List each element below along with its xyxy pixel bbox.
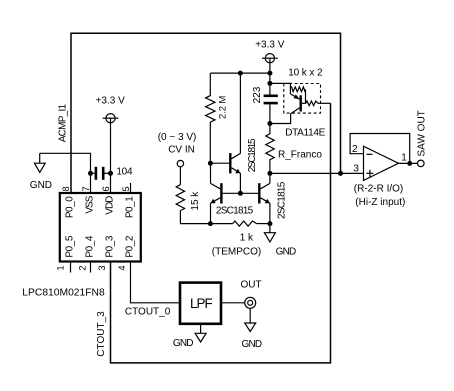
svg-text:P0_4: P0_4 xyxy=(85,235,96,257)
svg-text:3: 3 xyxy=(353,164,359,175)
power +3.3V right xyxy=(255,40,285,74)
svg-text:(Hi-Z input): (Hi-Z input) xyxy=(355,197,405,208)
svg-text:VSS: VSS xyxy=(85,195,96,213)
svg-text:(R-2-R I/O): (R-2-R I/O) xyxy=(354,184,403,195)
node junction top rail power xyxy=(267,71,272,76)
svg-text:GND: GND xyxy=(173,338,193,349)
wire CTOUT_3 net pin3 bottom loop xyxy=(111,103,331,363)
wire 15k to bottom rail xyxy=(180,211,210,224)
node junction cap top / DTA input xyxy=(267,81,272,86)
ground GND under OUT xyxy=(242,308,262,350)
node junction Q2 emitter rail xyxy=(208,221,213,226)
svg-text:CTOUT_3: CTOUT_3 xyxy=(96,311,107,357)
wire DTA collector to cap bottom xyxy=(270,114,291,124)
wire top frame ACMP_I1 net xyxy=(71,33,341,193)
node junction saw to ACMP frame xyxy=(338,171,343,176)
wire VDD xyxy=(110,118,112,193)
svg-text:LPF: LPF xyxy=(190,296,213,311)
svg-text:1 k: 1 k xyxy=(240,232,254,243)
resistor R 15k xyxy=(176,167,201,211)
svg-text:223: 223 xyxy=(252,86,263,103)
svg-text:SAW OUT: SAW OUT xyxy=(417,110,428,156)
svg-text:GND: GND xyxy=(30,180,52,191)
svg-text:(0 ~ 3 V): (0 ~ 3 V) xyxy=(158,132,197,143)
resistor R 1k TEMPCO xyxy=(212,221,270,257)
svg-text:P0_2: P0_2 xyxy=(125,235,136,257)
wire power node to cap/DTA xyxy=(269,73,271,95)
svg-text:(TEMPCO): (TEMPCO) xyxy=(212,246,261,257)
transistor Q1 2SC1815 top xyxy=(210,73,258,193)
svg-text:6: 6 xyxy=(101,186,111,191)
wire to DTA114E emitter xyxy=(270,83,291,94)
svg-text:GND: GND xyxy=(242,339,262,350)
ground GND under LPF xyxy=(173,324,206,349)
svg-text:2SC1815: 2SC1815 xyxy=(216,205,254,216)
svg-text:VDD: VDD xyxy=(105,196,116,215)
svg-text:1: 1 xyxy=(401,153,407,164)
node junction Q1 base / 2.2M / Q2 collector xyxy=(208,161,213,166)
wire bottom rail 1k xyxy=(210,223,232,225)
terminal SAW OUT xyxy=(417,110,428,166)
transistor Q4 DTA114E digital PNP xyxy=(284,68,326,139)
block LPF xyxy=(180,283,221,324)
svg-text:R_Franco: R_Franco xyxy=(278,150,322,161)
svg-text:2: 2 xyxy=(77,265,87,270)
svg-text:7: 7 xyxy=(81,186,91,191)
svg-text:CTOUT_0: CTOUT_0 xyxy=(125,306,171,317)
transistor Q2 2SC1815 left xyxy=(211,163,254,223)
pin 2 xyxy=(77,262,90,273)
svg-text:104: 104 xyxy=(116,166,133,177)
wire GND to VSS xyxy=(40,153,91,193)
svg-text:3: 3 xyxy=(97,265,107,270)
svg-text:P0_3: P0_3 xyxy=(105,235,116,257)
wire saw node to op-amp xyxy=(270,172,364,174)
svg-text:+3.3 V: +3.3 V xyxy=(96,96,126,107)
svg-text:P0_1: P0_1 xyxy=(125,196,136,218)
svg-text:CV IN: CV IN xyxy=(168,144,195,155)
svg-text:8: 8 xyxy=(61,186,71,191)
power +3.3V left xyxy=(96,96,126,123)
node junction op-amp output feedback xyxy=(407,161,412,166)
svg-text:+3.3 V: +3.3 V xyxy=(255,40,285,51)
terminal CV IN xyxy=(168,144,195,167)
terminal OUT connector xyxy=(241,280,262,309)
pin 5 xyxy=(121,183,131,193)
wire CTOUT_0 pin4 to LPF xyxy=(131,262,180,303)
wire top rail to power xyxy=(210,72,270,74)
svg-text:OUT: OUT xyxy=(241,280,262,291)
capacitor C1 104 bypass xyxy=(88,166,133,180)
node junction top rail Q1 collector xyxy=(238,71,243,76)
node junction Q2 Q3 base xyxy=(238,191,243,196)
ground GND1 top-left xyxy=(30,153,52,191)
IC U1 LPC810M021FN8 xyxy=(22,193,141,299)
wire LPF to OUT xyxy=(222,302,245,304)
svg-text:LPC810M021FN8: LPC810M021FN8 xyxy=(22,288,105,299)
svg-text:GND: GND xyxy=(276,246,296,257)
resistor R_Franco xyxy=(266,124,323,174)
transistor Q3 2SC1815 right xyxy=(240,173,287,223)
svg-text:2SC1815: 2SC1815 xyxy=(277,181,288,219)
svg-text:DTA114E: DTA114E xyxy=(285,127,325,138)
svg-text:15 k: 15 k xyxy=(190,191,201,211)
svg-text:2SC1815: 2SC1815 xyxy=(247,138,258,172)
svg-text:10 k x 2: 10 k x 2 xyxy=(288,68,323,79)
node junction Q3 emitter rail xyxy=(267,221,272,226)
node junction saw net xyxy=(267,171,272,176)
svg-text:4: 4 xyxy=(117,265,127,270)
svg-text:2.2 M: 2.2 M xyxy=(218,96,228,119)
capacitor C2 223 xyxy=(252,86,278,123)
svg-text:P0_0: P0_0 xyxy=(65,196,76,218)
node junction cap bottom xyxy=(267,121,272,126)
op-amp U2 xyxy=(350,134,417,209)
svg-text:1: 1 xyxy=(55,265,65,270)
svg-text:5: 5 xyxy=(121,186,131,191)
ground GND under Q3 xyxy=(264,224,296,258)
svg-text:P0_5: P0_5 xyxy=(65,235,76,257)
resistor R 2.2M xyxy=(206,73,228,163)
pin 1 xyxy=(55,262,70,273)
svg-text:ACMP_I1: ACMP_I1 xyxy=(57,104,68,143)
svg-text:2: 2 xyxy=(352,144,358,155)
wire DTA R2 out to CTOUT_3 loop xyxy=(318,102,331,104)
